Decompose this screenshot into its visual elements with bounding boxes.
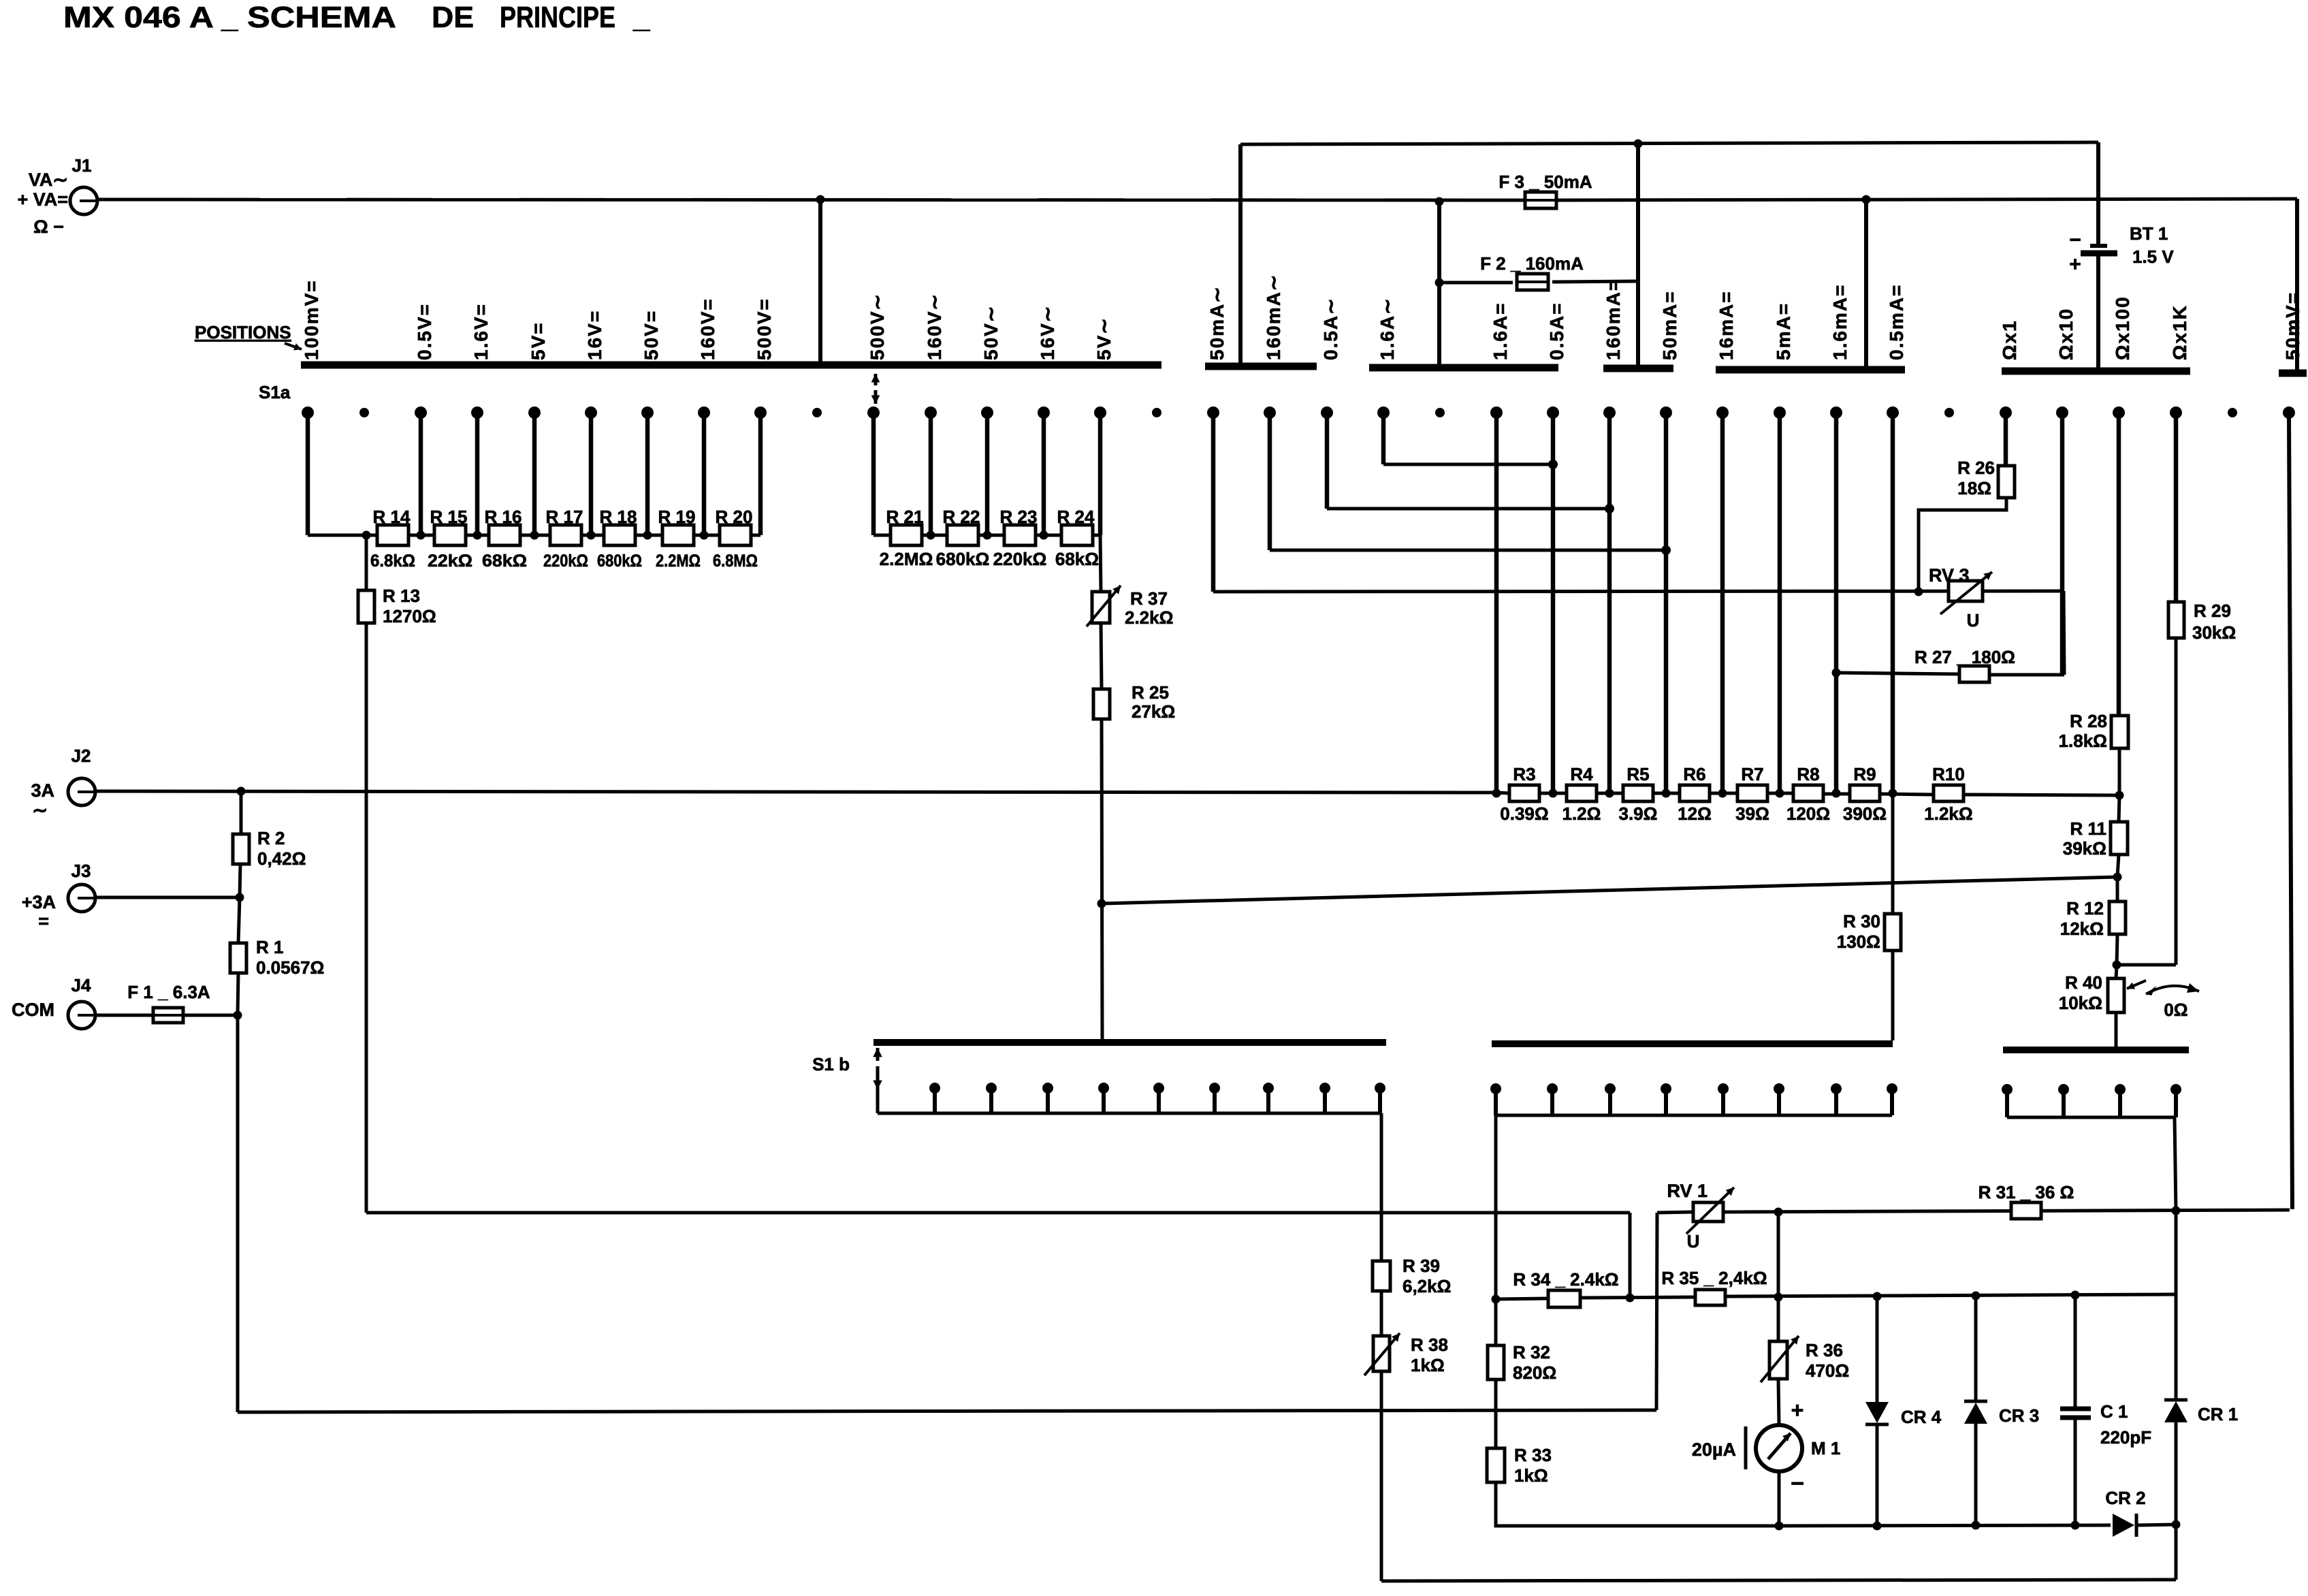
node junction J2 wire R2 branch bbox=[237, 787, 246, 796]
wire R39 to R38 bbox=[1380, 1291, 1383, 1336]
switch S1a contact dot pos24 bbox=[1660, 406, 1672, 419]
resistor R22 bbox=[947, 525, 978, 545]
svg-text:PRINCIPE: PRINCIPE bbox=[500, 1, 615, 34]
resistor R21 bbox=[891, 525, 922, 545]
wire S1b group2 down through junctions bbox=[1494, 1115, 1498, 1345]
svg-text:_: _ bbox=[632, 1, 650, 34]
svg-text:R 24: R 24 bbox=[1057, 507, 1095, 527]
switch S1b contact dot bbox=[1887, 1083, 1897, 1094]
svg-text:C 1: C 1 bbox=[2100, 1401, 2128, 1422]
wire meter branch from line P down bbox=[1777, 1212, 1780, 1341]
resistor R32 bbox=[1488, 1345, 1504, 1379]
wire Ohm x10 column from RV3 line to R27 corner bbox=[2064, 591, 2064, 675]
switch S1a contact dot pos0 bbox=[302, 406, 314, 419]
node junction line Q left end bbox=[1492, 1295, 1501, 1304]
svg-text:J3: J3 bbox=[71, 861, 91, 881]
resistor R8 bbox=[1793, 785, 1823, 801]
wire R2 branch down bbox=[240, 791, 243, 834]
svg-text:R 12: R 12 bbox=[2066, 898, 2104, 919]
resistor R20 bbox=[720, 525, 751, 545]
svg-text:S1 b: S1 b bbox=[812, 1054, 850, 1074]
wire stem from S1a pos3 bbox=[475, 413, 480, 535]
resistor R27 bbox=[1959, 666, 1989, 682]
wire mid horizontal from R25 column to R11-R12 node bbox=[1102, 877, 2117, 904]
wire S1b contact stub bbox=[1213, 1088, 1217, 1113]
svg-text:R 32: R 32 bbox=[1513, 1342, 1550, 1362]
wire S1b group2 common line bbox=[1496, 1114, 1892, 1117]
switch S1b bus segment 2 bbox=[1492, 1040, 1893, 1047]
svg-text:R3: R3 bbox=[1513, 764, 1535, 784]
svg-text:20µA: 20µA bbox=[1692, 1439, 1736, 1460]
resistor R14 bbox=[377, 525, 408, 545]
switch S1b contact dot bbox=[2058, 1084, 2069, 1095]
switch S1a contact dot pos30 bbox=[2000, 406, 2012, 419]
switch S1b contact dot bbox=[1042, 1083, 1053, 1094]
svg-text:∼: ∼ bbox=[32, 800, 48, 820]
svg-text:500V=: 500V= bbox=[754, 298, 775, 360]
wire S1b contact stub bbox=[1266, 1088, 1270, 1113]
svg-text:2.2kΩ: 2.2kΩ bbox=[1125, 607, 1173, 628]
node junction R11-R12 with mid line bbox=[2113, 873, 2122, 882]
switch S1b contact dot bbox=[986, 1083, 997, 1094]
wire R40 down to S1b bus seg3 bbox=[2115, 1012, 2118, 1047]
svg-text:RV 3: RV 3 bbox=[1929, 565, 1970, 586]
svg-text:22kΩ: 22kΩ bbox=[428, 552, 472, 571]
wire R37 to R25 bbox=[1101, 623, 1102, 689]
svg-text:1.6mA=: 1.6mA= bbox=[1829, 284, 1850, 360]
wire S1b contact stub bbox=[2062, 1089, 2066, 1117]
wire line B upper bbox=[1240, 142, 2098, 144]
node junction line Q at 2394 bbox=[1626, 1294, 1635, 1303]
svg-text:R 28: R 28 bbox=[2070, 711, 2107, 731]
switch S1a contact dot pos9 bbox=[812, 408, 822, 417]
wire link 0.5A~ to 160mA= column bbox=[1327, 507, 1609, 511]
svg-text:5V∼: 5V∼ bbox=[1093, 317, 1115, 360]
wire stem from S1a pos7 bbox=[702, 413, 707, 535]
svg-text:R 38: R 38 bbox=[1411, 1335, 1448, 1355]
node junction line Q C1 bbox=[2071, 1291, 2080, 1300]
wire R32 to R33 bbox=[1494, 1379, 1498, 1448]
switch S1b contact dot bbox=[929, 1083, 940, 1094]
rheostat R38 adjustable bbox=[1373, 1336, 1390, 1371]
resistor R6 bbox=[1680, 785, 1710, 801]
wire stem from S1a pos18 bbox=[1325, 413, 1330, 509]
svg-text:Ωx10: Ωx10 bbox=[2055, 308, 2077, 360]
svg-text:R 20: R 20 bbox=[716, 507, 753, 527]
diode CR1 bbox=[2164, 1399, 2187, 1402]
wire S1b contact stub bbox=[1550, 1089, 1554, 1115]
wire R1 down to J4 node bbox=[238, 973, 238, 1015]
svg-text:500V∼: 500V∼ bbox=[867, 293, 888, 360]
svg-text:R 39: R 39 bbox=[1403, 1256, 1440, 1276]
switch S1b contact dot bbox=[1490, 1083, 1501, 1094]
rheostat RV3 adjustable bbox=[1949, 581, 1983, 601]
wire stem from S1a pos19 bbox=[1381, 413, 1386, 464]
wire CR1 down to bottom rail bbox=[2175, 1525, 2178, 1580]
wire meter minus to rail bbox=[1778, 1471, 1781, 1526]
svg-text:220kΩ: 220kΩ bbox=[543, 552, 588, 571]
wire 5V~ junction down to R37 bbox=[1100, 535, 1101, 592]
resistor R5 bbox=[1623, 785, 1653, 801]
svg-text:CR 3: CR 3 bbox=[1999, 1405, 2039, 1426]
svg-text:1.5 V: 1.5 V bbox=[2132, 246, 2174, 267]
svg-text:16mA=: 16mA= bbox=[1716, 290, 1737, 360]
resistor R17 bbox=[550, 525, 581, 545]
switch S1a contact dot pos11 bbox=[925, 406, 937, 419]
switch S1a contact dot pos1 bbox=[359, 408, 369, 417]
wire bottom rail bbox=[1381, 1580, 2176, 1581]
svg-text:1270Ω: 1270Ω bbox=[383, 606, 436, 626]
fuse F2 160mA inline bbox=[1517, 274, 1548, 290]
wire line P right section with RV1 bbox=[1657, 1212, 1693, 1213]
switch S1a contact dot pos31 bbox=[2056, 406, 2068, 419]
svg-text:POSITIONS: POSITIONS bbox=[195, 322, 291, 342]
resistor R15 bbox=[434, 525, 466, 545]
svg-text:R 35 _ 2,4kΩ: R 35 _ 2,4kΩ bbox=[1661, 1268, 1767, 1288]
svg-text:R5: R5 bbox=[1626, 764, 1649, 784]
node junction chain3 output at R28 column bbox=[2115, 791, 2124, 800]
switch S1a contact dot pos29 bbox=[1944, 408, 1954, 417]
svg-text:+3A: +3A bbox=[22, 892, 56, 912]
svg-text:160mA=: 160mA= bbox=[1603, 278, 1624, 360]
svg-text:R 36: R 36 bbox=[1806, 1340, 1843, 1360]
resistor R3 bbox=[1509, 785, 1539, 801]
resistor R13 bbox=[358, 590, 374, 623]
wire S1b contact stub bbox=[933, 1088, 937, 1113]
svg-text:R 14: R 14 bbox=[373, 507, 411, 527]
svg-text:R 17: R 17 bbox=[546, 507, 583, 527]
svg-text:R 2: R 2 bbox=[257, 828, 285, 848]
switch S1a contact dot pos2 bbox=[415, 406, 427, 419]
switch S1a contact dot pos14 bbox=[1094, 406, 1106, 419]
switch S1b contact dot bbox=[1831, 1083, 1842, 1094]
node junction J4 wire bbox=[234, 1011, 242, 1020]
svg-text:R10: R10 bbox=[1932, 764, 1965, 784]
switch S1b contact dot bbox=[1774, 1083, 1784, 1094]
svg-text:1.6A∼: 1.6A∼ bbox=[1377, 297, 1398, 360]
wire S1b contact stub bbox=[1777, 1089, 1781, 1115]
svg-text:160mA∼: 160mA∼ bbox=[1263, 274, 1284, 360]
switch S1a contact dot pos10 bbox=[867, 406, 880, 419]
svg-text:+ VA=: + VA= bbox=[17, 189, 68, 210]
svg-text:120Ω: 120Ω bbox=[1786, 803, 1830, 824]
node junction chain1 bbox=[473, 531, 482, 540]
wire R29 down to node 1417 bbox=[2175, 637, 2178, 965]
wire C1 branch bbox=[2074, 1295, 2077, 1407]
wire stem from S1a pos8 bbox=[758, 413, 763, 535]
wire stem from S1a pos21 bbox=[1494, 413, 1499, 793]
svg-text:R 37: R 37 bbox=[1130, 588, 1168, 609]
svg-text:R 1: R 1 bbox=[256, 937, 283, 957]
switch S1a contact dot pos16 bbox=[1207, 406, 1219, 419]
diode CR2 inline bbox=[2113, 1514, 2134, 1537]
node junction CR4 rail bbox=[1873, 1522, 1882, 1531]
wire R11 to node 1288 bbox=[2117, 855, 2119, 877]
resistor R39 bbox=[1373, 1261, 1390, 1291]
wire node to R12 bbox=[2116, 877, 2119, 901]
svg-text:2.2MΩ: 2.2MΩ bbox=[880, 549, 933, 569]
switch S1a contact dot pos8 bbox=[754, 406, 767, 419]
switch S1b contact dot bbox=[2002, 1084, 2013, 1095]
wire stem from S1a pos16 bbox=[1211, 413, 1216, 592]
resistor R31_36 bbox=[2011, 1202, 2041, 1219]
svg-text:J4: J4 bbox=[71, 975, 91, 995]
wire stem from S1a pos26 bbox=[1778, 413, 1782, 794]
wire drop from line P to R34 line bbox=[1629, 1213, 1632, 1299]
wire S1b contact stub bbox=[1834, 1089, 1838, 1115]
svg-text:100mV=: 100mV= bbox=[301, 279, 322, 360]
switch S1a contact dot pos34 bbox=[2228, 408, 2237, 417]
wire resistor chain R21-R24 baseline bbox=[873, 534, 1100, 537]
node junction chain1 bbox=[417, 531, 426, 540]
wire R30 down to S1b bus seg2 bbox=[1891, 951, 1895, 1040]
switch S1b contact dot bbox=[1375, 1083, 1385, 1094]
wire S1b contact stub bbox=[1664, 1089, 1668, 1115]
switch S1a contact dot pos12 bbox=[981, 406, 993, 419]
wire chain3 segments bbox=[1495, 793, 1510, 793]
svg-text:5mA=: 5mA= bbox=[1773, 302, 1794, 360]
wire S1b contact stub bbox=[2174, 1089, 2178, 1117]
wire stem from S1a pos13 bbox=[1042, 413, 1046, 535]
node junction J3 R1 bbox=[236, 893, 244, 902]
svg-text:DE: DE bbox=[432, 1, 474, 34]
node junction R14 chain left bbox=[362, 531, 371, 540]
battery BT1 bottom wire to bus bbox=[2096, 256, 2100, 370]
svg-text:3.9Ω: 3.9Ω bbox=[1619, 803, 1658, 824]
wire S1b contact stub bbox=[2005, 1089, 2009, 1117]
wire stem from S1a pos28 bbox=[1891, 413, 1895, 794]
switch S1a bus segment bbox=[2002, 368, 2190, 375]
wire stem from S1a pos4 bbox=[532, 413, 537, 535]
switch S1b contact dot bbox=[1209, 1083, 1220, 1094]
wire R2 to J3 node bbox=[240, 864, 240, 897]
switch S1a contact dot pos15 bbox=[1152, 408, 1161, 417]
svg-text:0.0567Ω: 0.0567Ω bbox=[256, 957, 324, 978]
wire drop to S1a bus at pos9 bbox=[818, 199, 822, 364]
terminal J3 bbox=[68, 884, 95, 912]
wire R29 return line bbox=[2117, 963, 2176, 967]
svg-text:+: + bbox=[1791, 1398, 1804, 1422]
svg-text:68kΩ: 68kΩ bbox=[482, 552, 527, 571]
switch S1a bus segment bbox=[1369, 364, 1558, 372]
svg-text:1.6V=: 1.6V= bbox=[470, 303, 492, 360]
wire R27 line bbox=[1836, 673, 1959, 674]
node junction C1 rail bbox=[2071, 1521, 2080, 1530]
node junction R12-R40-R29 bbox=[2113, 961, 2121, 970]
wire R9-R10 tap down to R30 bbox=[1891, 794, 1895, 914]
node junction line Q CR3 bbox=[1972, 1292, 1981, 1300]
svg-text:U: U bbox=[1687, 1231, 1700, 1251]
svg-text:1.2kΩ: 1.2kΩ bbox=[1924, 803, 1972, 824]
svg-text:1.8kΩ: 1.8kΩ bbox=[2059, 731, 2107, 751]
wire link 1.6A~ to 0.5A= column bbox=[1383, 463, 1553, 466]
wire vertical 2406 from line B through F2 line to bus bbox=[1636, 144, 1640, 368]
switch S1a contact dot pos18 bbox=[1321, 406, 1333, 419]
wire stem from S1a pos24 bbox=[1664, 413, 1669, 793]
wire R28 to chain3 node bbox=[2118, 748, 2121, 795]
node junction F2 line left end bbox=[1435, 278, 1444, 287]
svg-text:220pF: 220pF bbox=[2100, 1427, 2151, 1448]
svg-text:30kΩ: 30kΩ bbox=[2192, 622, 2236, 643]
resistor R23 bbox=[1004, 525, 1036, 545]
svg-text:R9: R9 bbox=[1853, 764, 1876, 784]
switch S1b bus segment 3 bbox=[2003, 1047, 2189, 1053]
svg-text:CR 2: CR 2 bbox=[2105, 1488, 2145, 1508]
rheostat R37 adjustable bbox=[1092, 592, 1110, 623]
node junction J1-wire to 500V~ drop bbox=[816, 195, 825, 204]
svg-text:0,42Ω: 0,42Ω bbox=[257, 848, 306, 869]
svg-text:0.5mA=: 0.5mA= bbox=[1886, 284, 1907, 360]
wire R33 down corner to meter rail bbox=[1496, 1482, 1779, 1526]
svg-text:6.8kΩ: 6.8kΩ bbox=[370, 552, 415, 571]
svg-text:COM: COM bbox=[12, 1000, 54, 1020]
fuse F3 50mA inline bbox=[1525, 192, 1556, 208]
wire S1b contact stub bbox=[989, 1088, 993, 1113]
switch S1b contact dot bbox=[2170, 1084, 2181, 1095]
svg-text:50V∼: 50V∼ bbox=[980, 305, 1001, 360]
svg-text:R 13: R 13 bbox=[383, 586, 420, 606]
switch S1a bus segment bbox=[1205, 363, 1317, 370]
node junction R25 line with mid horizontal bbox=[1097, 899, 1106, 908]
resistor R29 bbox=[2168, 602, 2184, 638]
wire S1b contact stub bbox=[1157, 1088, 1161, 1113]
svg-text:160V∼: 160V∼ bbox=[924, 293, 945, 360]
svg-text:0.39Ω: 0.39Ω bbox=[1500, 803, 1548, 824]
wire CR1 branch from line P bbox=[2175, 1211, 2178, 1400]
svg-text:R 33: R 33 bbox=[1514, 1445, 1552, 1465]
svg-text:R 31 _ 36 Ω: R 31 _ 36 Ω bbox=[1978, 1182, 2074, 1202]
svg-text:18Ω: 18Ω bbox=[1957, 478, 1991, 498]
svg-text:Ωx1K: Ωx1K bbox=[2169, 304, 2190, 360]
svg-text:39kΩ: 39kΩ bbox=[2063, 838, 2106, 859]
node junction line P meter branch bbox=[1774, 1208, 1783, 1217]
resistor R9 bbox=[1850, 785, 1880, 801]
wire vertical 2114 from line A to bus bbox=[1437, 202, 1441, 366]
wire line A from J1 across top bbox=[97, 199, 1525, 200]
svg-text:U: U bbox=[1967, 610, 1980, 631]
wire R25 down to S1b bus bbox=[1102, 719, 1102, 1042]
svg-text:6.8MΩ: 6.8MΩ bbox=[713, 552, 758, 571]
switch S1b contact dot bbox=[1718, 1083, 1729, 1094]
svg-text:J1: J1 bbox=[72, 155, 92, 176]
wire stem from S1a pos30 bbox=[2004, 413, 2008, 466]
node junction chain1 bbox=[700, 531, 709, 540]
svg-text:390Ω: 390Ω bbox=[1843, 803, 1887, 824]
node junction line A at x2114 bbox=[1435, 197, 1444, 206]
resistor R34 bbox=[1548, 1290, 1580, 1307]
switch S1a contact dot pos20 bbox=[1435, 408, 1445, 417]
svg-text:1kΩ: 1kΩ bbox=[1411, 1355, 1445, 1375]
switch S1a contact dot pos33 bbox=[2170, 406, 2182, 419]
node junction line B at 2406 bbox=[1634, 140, 1643, 148]
svg-text:39Ω: 39Ω bbox=[1735, 803, 1769, 824]
resistor R25 bbox=[1093, 689, 1110, 719]
wire R36 to meter plus bbox=[1778, 1379, 1779, 1425]
svg-text:MX 046 A: MX 046 A bbox=[63, 1, 214, 34]
switch S1b contact dot bbox=[1605, 1083, 1616, 1094]
node junction line Q meter branch bbox=[1774, 1293, 1783, 1302]
svg-text:12kΩ: 12kΩ bbox=[2060, 919, 2104, 939]
wire CR3 branch bbox=[1974, 1296, 1978, 1401]
svg-text:R 21: R 21 bbox=[886, 507, 924, 527]
svg-text:0.5A∼: 0.5A∼ bbox=[1320, 297, 1341, 360]
wire S1b contact stub bbox=[1046, 1088, 1050, 1113]
wire link 160mA~ to 50mA= column bbox=[1270, 549, 1666, 552]
switch S1a contact dot pos25 bbox=[1716, 406, 1729, 419]
wire S1b group1 down to R39 bbox=[1380, 1113, 1383, 1261]
wire S1b contact stub bbox=[1102, 1088, 1106, 1113]
switch S1a contact dot pos7 bbox=[698, 406, 710, 419]
svg-text:5V=: 5V= bbox=[528, 321, 549, 360]
svg-text:2.2MΩ: 2.2MΩ bbox=[656, 552, 701, 571]
svg-text:_: _ bbox=[221, 1, 238, 34]
svg-text:0Ω: 0Ω bbox=[2164, 1000, 2187, 1020]
wire J3 to node bbox=[94, 896, 240, 899]
wire S1b contact stub bbox=[2118, 1089, 2122, 1117]
svg-text:R 16: R 16 bbox=[485, 507, 522, 527]
svg-text:50V=: 50V= bbox=[641, 310, 662, 360]
wire S1b contact stub bbox=[1378, 1088, 1382, 1113]
wire COM return from J4 column to RV1 corner bbox=[238, 1410, 1656, 1412]
resistor R11 bbox=[2111, 822, 2128, 855]
svg-text:F 1 _ 6.3A: F 1 _ 6.3A bbox=[127, 982, 210, 1002]
svg-text:220kΩ: 220kΩ bbox=[993, 549, 1047, 569]
svg-text:130Ω: 130Ω bbox=[1837, 931, 1880, 952]
resistor R2 bbox=[233, 834, 249, 864]
switch S1b bus segment 1 bbox=[873, 1039, 1386, 1046]
switch S1a bus segment bbox=[1716, 366, 1905, 374]
wire stem from S1a pos11 bbox=[929, 413, 933, 535]
svg-text:Ωx1: Ωx1 bbox=[1999, 319, 2020, 360]
svg-text:R 19: R 19 bbox=[658, 507, 696, 527]
switch S1a contact dot pos35 bbox=[2283, 406, 2295, 419]
svg-text:R6: R6 bbox=[1683, 764, 1705, 784]
node junction RV3 line at R26 drop bbox=[1914, 588, 1923, 596]
wire corner line A right down to 50mV bus stub bbox=[2295, 199, 2299, 372]
svg-text:50mA=: 50mA= bbox=[1659, 290, 1680, 360]
svg-text:R 40: R 40 bbox=[2065, 972, 2102, 993]
wire S1b contact stub bbox=[1323, 1088, 1327, 1113]
node junction chain2 bbox=[1040, 531, 1048, 540]
svg-text:0.5V=: 0.5V= bbox=[414, 303, 435, 360]
wire R26 bottom elbow to RV3 line bbox=[1919, 498, 2006, 592]
wire link 50mA~ along RV3 line to Ohm x10 column bbox=[1213, 591, 2064, 592]
switch S1b contact dot bbox=[1153, 1083, 1164, 1094]
wire F2 line bbox=[1439, 281, 1513, 285]
switch S1a bus segment bbox=[2279, 370, 2307, 377]
svg-text:R 18: R 18 bbox=[600, 507, 637, 527]
switch S1a contact dot pos5 bbox=[585, 406, 597, 419]
wire S1b contact stub bbox=[1890, 1089, 1894, 1115]
wire node to R40 bbox=[2116, 965, 2117, 978]
label 0 Ohm with curved arrow bbox=[2146, 986, 2199, 994]
wire J4 to fuse F1 bbox=[94, 1014, 153, 1017]
wire stem from S1a pos31 bbox=[2060, 413, 2065, 675]
wire stem from S1a pos22 bbox=[1551, 413, 1556, 793]
svg-text:SCHEMA: SCHEMA bbox=[247, 1, 396, 34]
terminal J1 bbox=[70, 187, 97, 214]
svg-text:1.6A=: 1.6A= bbox=[1490, 302, 1511, 361]
resistor R35 bbox=[1695, 1290, 1725, 1305]
switch S1a contact dot pos22 bbox=[1547, 406, 1559, 419]
resistor R12 bbox=[2109, 901, 2126, 934]
svg-text:1.2Ω: 1.2Ω bbox=[1562, 803, 1601, 824]
meter M1 20uA bbox=[1756, 1425, 1802, 1471]
switch S1a bus segment bbox=[301, 362, 1161, 369]
node junction chain2 bbox=[983, 531, 992, 540]
svg-text:470Ω: 470Ω bbox=[1806, 1360, 1849, 1381]
fuse F1 6.3A bbox=[153, 1008, 183, 1023]
